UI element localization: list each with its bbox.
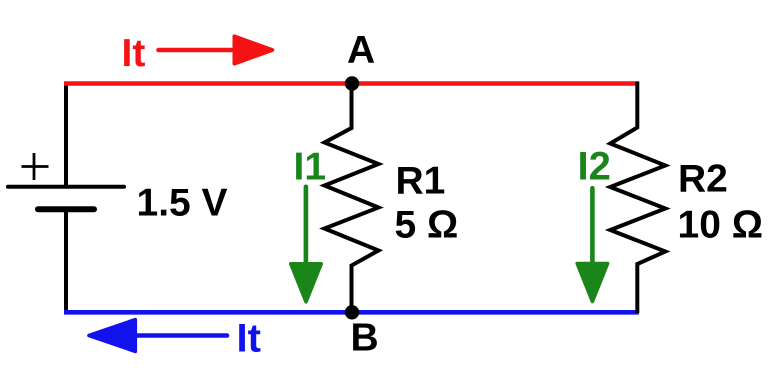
current arrow I1 (green, pointing down into R1 branch) bbox=[291, 187, 321, 302]
svg-text:I2: I2 bbox=[578, 145, 611, 189]
wire: battery positive lead (left vertical, top) bbox=[64, 82, 68, 189]
svg-text:5 Ω: 5 Ω bbox=[395, 204, 459, 247]
battery V1 negative plate bbox=[38, 206, 94, 212]
resistor R1 (zigzag with leads, node A to node B) bbox=[325, 88, 379, 312]
battery V1 positive plate bbox=[8, 185, 124, 189]
svg-text:It: It bbox=[237, 317, 261, 361]
node B junction dot bbox=[345, 305, 359, 319]
svg-text:1.5 V: 1.5 V bbox=[137, 182, 228, 225]
current arrow It (bottom, blue, pointing left) bbox=[89, 320, 227, 352]
current arrow I2 (green, pointing down into R2 branch) bbox=[577, 188, 607, 301]
wire: top net from battery + through node A to R2 (red) bbox=[64, 81, 639, 86]
battery plus sign bbox=[22, 153, 49, 180]
svg-text:It: It bbox=[122, 32, 146, 75]
node A junction dot bbox=[345, 76, 359, 90]
resistor R2 (zigzag with leads, top net to bottom net) bbox=[610, 82, 665, 314]
svg-text:R2: R2 bbox=[678, 157, 728, 200]
current arrow It (top, red, pointing right) bbox=[159, 36, 273, 64]
svg-text:B: B bbox=[351, 317, 379, 360]
svg-text:A: A bbox=[347, 29, 375, 72]
wire: battery negative lead (left vertical, bottom) bbox=[64, 208, 68, 314]
svg-text:10 Ω: 10 Ω bbox=[678, 203, 763, 246]
wire: bottom net from R2 through node B back to battery (blue) bbox=[64, 310, 639, 315]
svg-text:I1: I1 bbox=[294, 146, 327, 189]
svg-text:R1: R1 bbox=[396, 160, 446, 203]
